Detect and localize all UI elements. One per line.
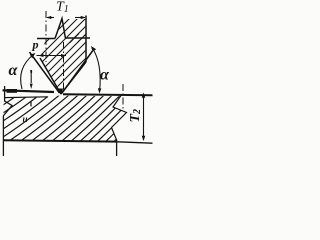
svg-text:u: u [23,114,28,124]
svg-text:p: p [32,38,39,52]
svg-text:α: α [100,67,110,84]
svg-text:α: α [9,62,19,79]
